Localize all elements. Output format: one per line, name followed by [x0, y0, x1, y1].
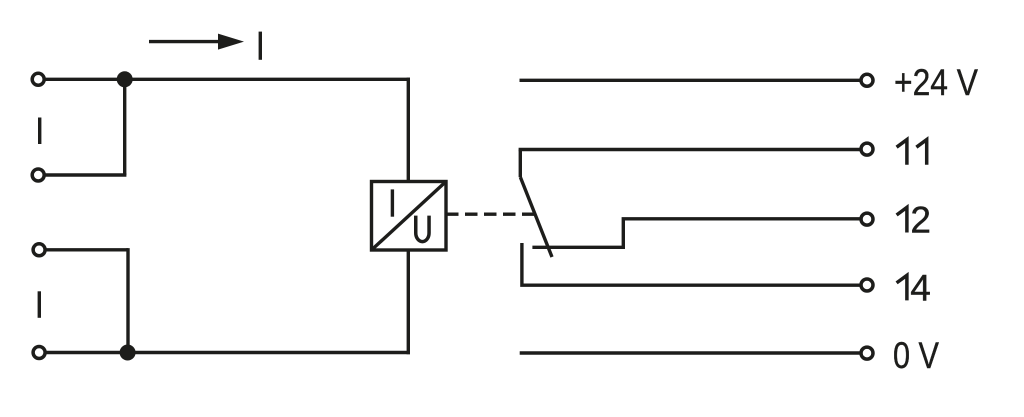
- wire: vertical drop into converter top: [407, 78, 410, 182]
- wire: +24 V supply line: [520, 79, 861, 82]
- svg-text:4: 4: [910, 267, 931, 308]
- relay contact 12: fixed bar and step to terminal 12: [532, 219, 860, 248]
- relay contact: movable lever: [520, 177, 552, 257]
- dashed actuation link: [446, 212, 534, 215]
- wire: bottom horizontal to converter: [46, 351, 410, 354]
- wire: line to terminal 11: [519, 148, 860, 151]
- label I (current direction): [259, 32, 262, 60]
- converter U1: I/U box: [372, 182, 447, 251]
- relay contact 14: fixed stub and line to terminal 14: [522, 243, 860, 285]
- terminal: current input 2 (+): [33, 244, 45, 256]
- relay contact: common 11 stem: [519, 150, 522, 178]
- junction: input 1 node: [117, 71, 133, 87]
- wire: junction down to input 1 return: [123, 79, 126, 175]
- svg-text:+24 V: +24 V: [894, 62, 978, 103]
- label 11: [897, 140, 927, 165]
- terminal +24V: [861, 74, 873, 86]
- svg-text:2: 2: [910, 200, 931, 241]
- svg-text:0 V: 0 V: [893, 335, 939, 376]
- wire: input 2 top horizontal: [46, 248, 128, 251]
- terminal: current input 2 (-): [33, 347, 45, 359]
- wire: input 1 return: [46, 173, 127, 176]
- terminal 12: [861, 213, 873, 225]
- terminal 11: [861, 143, 873, 155]
- terminal: current input 1 (-): [32, 169, 44, 181]
- terminal 0V: [861, 347, 873, 359]
- junction: input 2 node: [120, 345, 136, 361]
- wire: top horizontal to converter: [46, 78, 411, 81]
- terminal: current input 1 (+): [32, 73, 44, 85]
- label 14: [897, 267, 931, 308]
- label I (input 2): [38, 291, 41, 318]
- wire: vertical rise from converter bottom: [407, 250, 410, 354]
- label 12: [897, 200, 931, 241]
- terminal 14: [861, 279, 873, 291]
- label I (input 1): [38, 118, 41, 145]
- current flow arrow: [149, 34, 244, 50]
- wire: input 2 vertical: [126, 248, 129, 352]
- wire: 0 V return line: [520, 351, 860, 354]
